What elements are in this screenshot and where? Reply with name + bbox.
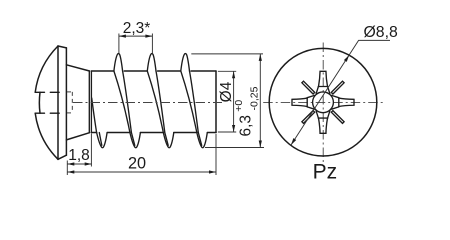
dimension 20 extension lines xyxy=(67,134,216,175)
dimension Ø4 line xyxy=(233,71,235,132)
dimension 1,8 extension lines xyxy=(67,134,91,168)
dimension 1,8 arrows xyxy=(67,162,91,165)
head flange front face xyxy=(57,46,59,159)
thread crest 1 flanks xyxy=(114,71,131,133)
svg-text:Ø8,8: Ø8,8 xyxy=(364,24,398,41)
dimension 6,3 extension lines xyxy=(191,54,264,148)
dimension 6,3 arrows xyxy=(259,54,262,148)
dimension 2,3* arrows xyxy=(119,35,152,38)
screw tip end face xyxy=(215,71,217,133)
head outer circle xyxy=(269,48,377,156)
pozidriv SW wing mark xyxy=(302,111,315,124)
neck cone top xyxy=(66,65,89,71)
pozidriv east arm xyxy=(332,95,355,109)
recess notch arc on dome xyxy=(38,92,41,113)
thread root 0 bottom (near head) xyxy=(97,133,108,148)
pozidriv center circle xyxy=(313,92,334,113)
svg-text:2,3*: 2,3* xyxy=(123,20,151,37)
thread crest 2 flanks xyxy=(147,71,165,133)
pozidriv south arm xyxy=(316,111,330,134)
dimension 6,3 line xyxy=(259,54,261,148)
core bottom line xyxy=(91,132,216,134)
recess edge ticks lower xyxy=(35,112,59,114)
dimension Ø4 arrows xyxy=(232,71,235,132)
pozidriv north arm xyxy=(316,71,330,94)
thread start partial flank xyxy=(92,98,97,133)
dimension 2,3* line xyxy=(119,35,152,37)
thread root 1 bottom xyxy=(130,133,141,148)
thread root 2 bottom xyxy=(163,133,174,148)
neck cone bottom xyxy=(66,133,89,140)
pozidriv NE wing mark xyxy=(331,81,344,94)
thread root 3 bottom xyxy=(197,133,208,148)
thread crest 3 flanks xyxy=(181,71,199,133)
pozidriv west arm xyxy=(292,95,315,109)
dimension 2,3* extension lines xyxy=(119,34,152,54)
head flange top edge xyxy=(58,46,66,48)
dimension 20 line xyxy=(67,171,216,173)
svg-text:1,8: 1,8 xyxy=(68,147,90,164)
svg-text:Pz: Pz xyxy=(313,161,338,184)
thread crest 3 top xyxy=(181,54,190,71)
pozidriv NW wing mark xyxy=(302,81,315,94)
leader arrows Ø8,8 xyxy=(291,55,349,145)
thread crest 2 top xyxy=(147,54,156,71)
head flange back face xyxy=(65,48,67,155)
core top line xyxy=(91,70,216,72)
pozidriv SE wing mark xyxy=(331,111,344,124)
leader line Ø8,8 xyxy=(291,40,390,145)
centerline of screw axis xyxy=(73,102,222,104)
head front view centerline horizontal xyxy=(263,102,383,104)
hidden recess depth (dashed) xyxy=(67,92,72,113)
cone end vertical xyxy=(88,71,90,133)
svg-text:-0,25: -0,25 xyxy=(249,86,261,110)
dimension 1,8 line xyxy=(67,163,91,165)
thread start edge xyxy=(90,71,92,133)
screw head dome outline xyxy=(35,46,58,159)
dimension 20 arrows xyxy=(67,170,216,173)
head front view centerline vertical xyxy=(322,43,324,163)
dimension Ø4 extension lines xyxy=(218,71,236,132)
recess edge ticks upper xyxy=(35,91,59,93)
svg-text:6,3: 6,3 xyxy=(237,115,254,137)
svg-text:+0: +0 xyxy=(233,100,245,112)
thread crest 1 top xyxy=(114,54,123,71)
head flange bottom edge xyxy=(58,155,66,159)
svg-text:Ø4: Ø4 xyxy=(218,81,235,102)
svg-text:20: 20 xyxy=(128,154,146,172)
